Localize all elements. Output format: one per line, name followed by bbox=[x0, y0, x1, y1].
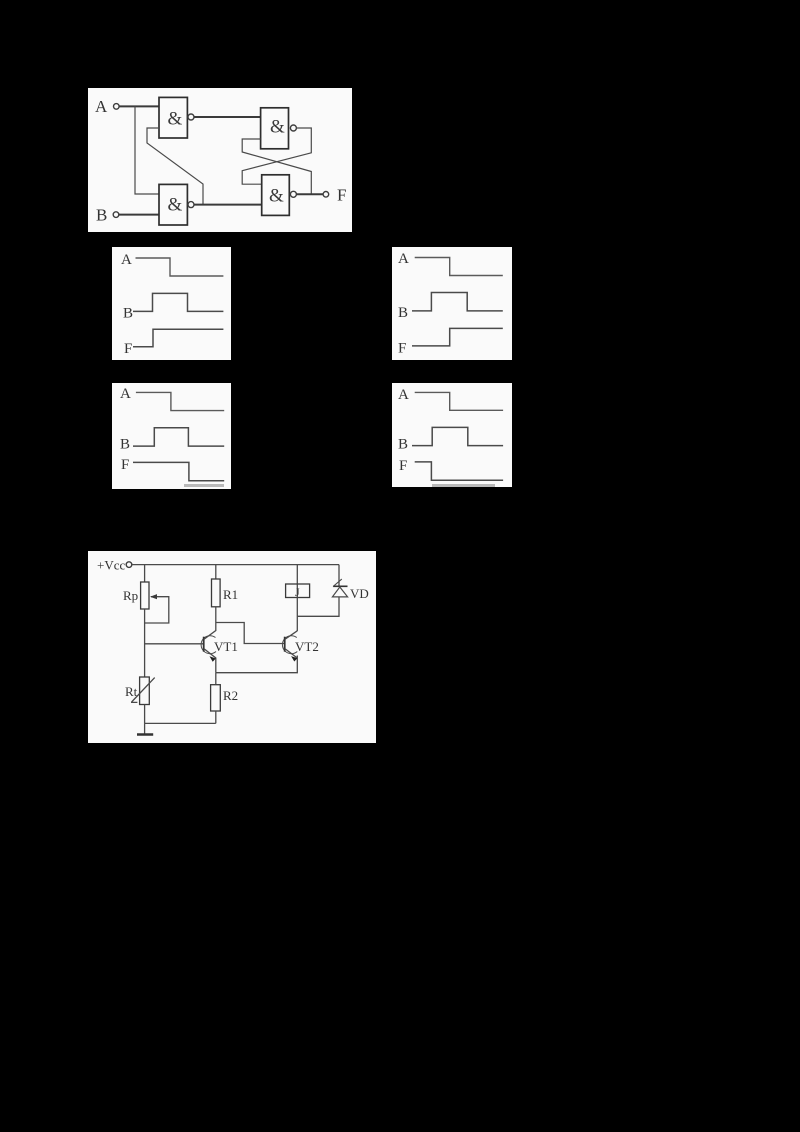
transistor VT1 bbox=[201, 636, 216, 654]
svg-text:Rt: Rt bbox=[125, 684, 138, 699]
transistor VT2 bbox=[282, 636, 297, 654]
wire Rt bottom to ground rail bbox=[144, 705, 146, 724]
svg-text:F: F bbox=[398, 341, 406, 357]
svg-text:A: A bbox=[121, 252, 132, 268]
scan shadow under F low level bbox=[184, 484, 224, 487]
svg-text:A: A bbox=[398, 387, 409, 403]
waveform F bbox=[412, 328, 503, 346]
output F terminal bbox=[323, 192, 329, 198]
wire B to gate D2 bbox=[119, 214, 159, 216]
Rp wiper arm bbox=[145, 597, 169, 623]
diode VD bbox=[338, 565, 340, 587]
waveform F bbox=[133, 329, 223, 347]
waveform B bbox=[133, 293, 223, 311]
svg-text:B: B bbox=[123, 306, 133, 322]
potentiometer Rp bbox=[141, 582, 149, 609]
resistor R1 bbox=[212, 579, 221, 607]
wire J bottom to VT2 collector bbox=[296, 598, 298, 632]
svg-text:VT1: VT1 bbox=[214, 639, 238, 654]
svg-text:F: F bbox=[124, 341, 132, 357]
ground rail wire bbox=[145, 722, 216, 724]
wire rail to Rp bbox=[144, 565, 146, 582]
NAND gate D2 bbox=[159, 184, 187, 225]
wire A to gate D1 bbox=[119, 105, 159, 107]
wire R1 bottom to VT1 collector node bbox=[215, 607, 217, 623]
svg-text:VT2: VT2 bbox=[295, 639, 319, 654]
wire D3 output cross to D4 upper input bbox=[242, 128, 311, 184]
svg-text:B: B bbox=[398, 305, 408, 321]
thermistor Rt body bbox=[140, 677, 150, 705]
svg-text:R2: R2 bbox=[223, 688, 238, 703]
svg-text:+Vcc: +Vcc bbox=[97, 558, 125, 573]
input B terminal bbox=[113, 212, 119, 218]
gate D2 output bubble bbox=[188, 202, 194, 208]
waveform A bbox=[415, 258, 503, 276]
gate D3 output bubble bbox=[290, 125, 296, 131]
svg-text:R1: R1 bbox=[223, 587, 238, 602]
NAND gate D3 bbox=[261, 108, 289, 149]
svg-text:&: & bbox=[168, 109, 183, 130]
svg-text:Rp: Rp bbox=[123, 588, 138, 603]
wire rail to R1 bbox=[215, 565, 217, 579]
wire D2 output to gate D4 bbox=[194, 204, 262, 206]
thermistor diagonal stroke bbox=[131, 678, 155, 703]
scan shadow under F low level bbox=[432, 484, 495, 487]
waveform F bbox=[133, 462, 224, 480]
svg-text:A: A bbox=[120, 386, 131, 402]
svg-text:&: & bbox=[269, 186, 284, 207]
svg-text:J: J bbox=[295, 585, 300, 599]
wire A branch to gate D2 bbox=[135, 106, 159, 194]
gate D1 output bubble bbox=[188, 114, 194, 120]
wire Rp bottom to divider node bbox=[144, 609, 146, 677]
relay coil J bbox=[286, 584, 310, 598]
wire rail to relay J bbox=[296, 565, 298, 598]
wire to output F terminal bbox=[296, 193, 323, 195]
svg-text:A: A bbox=[95, 97, 108, 116]
resistor R2 bbox=[211, 685, 221, 711]
waveform B bbox=[412, 427, 503, 445]
top supply rail bbox=[132, 564, 339, 566]
svg-text:F: F bbox=[121, 457, 129, 473]
svg-text:&: & bbox=[270, 117, 285, 138]
svg-text:B: B bbox=[398, 437, 408, 453]
svg-text:F: F bbox=[399, 458, 407, 474]
wire F feedback cross to D3 lower input bbox=[242, 139, 311, 194]
svg-text:B: B bbox=[96, 206, 107, 225]
waveform A bbox=[136, 392, 224, 410]
wire divider node to VT1 base bbox=[145, 643, 204, 645]
svg-text:B: B bbox=[120, 437, 130, 453]
Rp wiper arrowhead bbox=[150, 594, 157, 599]
emitter bus VT1 to VT2 bbox=[216, 656, 297, 673]
waveform F bbox=[415, 462, 503, 480]
waveform B bbox=[133, 428, 224, 446]
wire emitter node to R2 and R2 to ground rail bbox=[215, 673, 217, 724]
svg-text:&: & bbox=[168, 195, 183, 216]
waveform B bbox=[412, 293, 503, 311]
svg-text:VD: VD bbox=[350, 586, 369, 601]
svg-text:F: F bbox=[337, 186, 346, 205]
wire D1 output to gate D3 bbox=[194, 116, 261, 118]
ground symbol bbox=[144, 723, 146, 733]
+Vcc terminal bbox=[126, 562, 132, 568]
wire J/VD bottom junction bbox=[297, 597, 339, 616]
NAND gate D4 bbox=[262, 175, 290, 216]
input A terminal bbox=[114, 104, 120, 110]
waveform A bbox=[136, 258, 224, 276]
wire collector node to VT2 base bbox=[216, 623, 285, 644]
NAND gate D1 bbox=[159, 97, 187, 138]
waveform A bbox=[415, 392, 503, 410]
gate D4 output bubble bbox=[290, 191, 296, 197]
svg-text:A: A bbox=[398, 251, 409, 267]
feedback wire D2 output to D1 lower input bbox=[147, 128, 203, 205]
